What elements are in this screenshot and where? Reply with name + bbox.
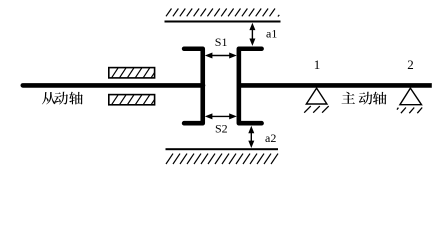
svg-text:a1: a1 — [266, 27, 277, 41]
svg-text:S2: S2 — [215, 121, 228, 135]
svg-text:1: 1 — [314, 57, 321, 72]
svg-text:S1: S1 — [215, 35, 228, 49]
svg-text:a2: a2 — [265, 131, 276, 145]
svg-text:2: 2 — [407, 57, 414, 72]
